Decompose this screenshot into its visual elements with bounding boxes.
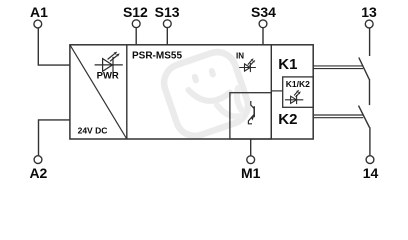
contact K1 blade bbox=[359, 58, 369, 80]
terminal S13 bbox=[163, 20, 171, 28]
svg-text:K1/K2: K1/K2 bbox=[286, 79, 310, 89]
svg-text:K1: K1 bbox=[278, 56, 297, 73]
power supply diagonal bbox=[70, 45, 127, 139]
wire M1 bbox=[250, 139, 252, 156]
svg-text:A1: A1 bbox=[30, 4, 48, 20]
svg-text:PSR-MS55: PSR-MS55 bbox=[132, 50, 182, 61]
LED K1/K2 bbox=[285, 92, 303, 104]
wire S34 bbox=[262, 28, 264, 45]
wire contact to 14 bbox=[369, 127, 371, 156]
transistor Q1 bbox=[248, 101, 254, 124]
mechanical link K2 bbox=[313, 115, 363, 118]
svg-text:S12: S12 bbox=[123, 4, 148, 20]
terminal A2 bbox=[34, 156, 42, 164]
K1/K2 indicator box bbox=[283, 77, 314, 107]
svg-text:K2: K2 bbox=[278, 111, 297, 128]
terminal M1 bbox=[247, 156, 255, 164]
svg-text:14: 14 bbox=[363, 165, 379, 181]
svg-text:S34: S34 bbox=[251, 4, 276, 20]
watermark logo bbox=[159, 47, 253, 141]
wire S12 bbox=[135, 28, 137, 45]
svg-text:S13: S13 bbox=[155, 4, 180, 20]
terminal 13 bbox=[365, 20, 373, 28]
LED IN bbox=[239, 60, 256, 72]
power block divider bbox=[126, 45, 128, 139]
svg-text:IN: IN bbox=[236, 51, 244, 60]
relay block divider bbox=[270, 45, 272, 139]
mechanical link K1 bbox=[313, 66, 363, 69]
module outline PSR-MS55 bbox=[70, 45, 313, 139]
contact K2 blade bbox=[359, 106, 370, 128]
svg-text:M1: M1 bbox=[241, 165, 261, 181]
output transistor box bbox=[230, 93, 271, 139]
svg-text:24V DC: 24V DC bbox=[78, 126, 108, 136]
wire S13 bbox=[166, 28, 168, 45]
terminal A1 bbox=[34, 20, 42, 28]
terminal S34 bbox=[259, 20, 267, 28]
svg-text:PWR: PWR bbox=[97, 71, 119, 82]
wire A2 bbox=[39, 120, 70, 156]
wire stub into K1/K2 box bbox=[271, 90, 282, 92]
wire between contacts bbox=[369, 79, 371, 105]
terminal 14 bbox=[366, 156, 374, 164]
wire 13 to contact bbox=[369, 28, 371, 56]
svg-text:13: 13 bbox=[361, 4, 377, 20]
svg-text:A2: A2 bbox=[29, 165, 47, 181]
wire A1 bbox=[38, 28, 70, 65]
LED PWR bbox=[95, 54, 123, 72]
terminal S12 bbox=[132, 20, 140, 28]
